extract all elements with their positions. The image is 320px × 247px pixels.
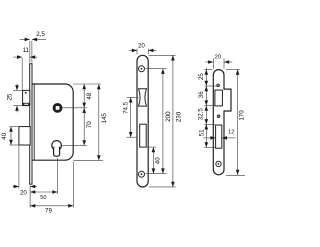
svg-text:12: 12 [228,129,234,135]
svg-text:50: 50 [40,195,46,201]
svg-text:25: 25 [6,93,13,100]
svg-text:170: 170 [239,110,246,121]
svg-text:20: 20 [20,190,27,197]
svg-text:200: 200 [165,111,172,122]
svg-text:2,5: 2,5 [36,31,45,38]
svg-text:20: 20 [215,55,221,61]
svg-text:70: 70 [86,121,93,128]
svg-text:79: 79 [45,208,52,215]
svg-text:32,5: 32,5 [197,108,204,121]
svg-text:11: 11 [23,47,30,54]
svg-text:36: 36 [198,91,205,98]
svg-text:40: 40 [154,157,161,164]
svg-text:145: 145 [101,112,108,123]
svg-text:25: 25 [198,73,205,80]
svg-text:48: 48 [86,92,93,99]
svg-text:74,5: 74,5 [122,101,129,114]
svg-text:20: 20 [138,43,145,50]
svg-text:230: 230 [176,111,183,122]
svg-text:40: 40 [1,132,8,139]
svg-text:51: 51 [198,129,205,136]
